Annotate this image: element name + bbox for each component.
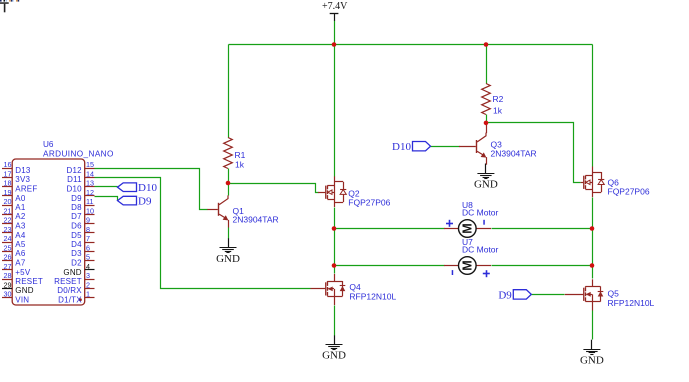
junction Q4 drain / U7 net [332, 263, 337, 268]
transistor Q4 RFP12N10L (N-MOSFET) [311, 274, 397, 305]
wire R2 to junction [486, 115, 488, 123]
svg-text:21: 21 [4, 206, 12, 215]
svg-text:29: 29 [4, 280, 12, 289]
svg-text:GND: GND [580, 355, 604, 367]
pin 26 A7 (left) [2, 253, 26, 268]
svg-text:5: 5 [86, 253, 90, 262]
pin 13 D10 (right) [67, 179, 95, 194]
svg-text:A4: A4 [15, 231, 26, 240]
ground GND under Q1 [216, 238, 240, 265]
svg-text:ARDUINO_NANO: ARDUINO_NANO [43, 149, 114, 158]
pin 18 AREF (left) [2, 179, 37, 194]
svg-text:DC Motor: DC Motor [462, 208, 499, 218]
pin 30 VIN (left) [2, 290, 29, 305]
pin 16 D13 (left) [2, 160, 31, 175]
junction rail / R2 column [484, 42, 489, 47]
pin 22 A3 (left) [2, 216, 26, 231]
net flag D9 at Arduino [118, 196, 152, 208]
clipped text artifact dots [0, 0, 19, 2]
svg-text:20: 20 [4, 197, 12, 206]
wire U8 motor - to Q6 drain net [492, 228, 593, 230]
svg-text:DC Motor: DC Motor [462, 245, 499, 255]
svg-text:D10: D10 [138, 182, 157, 194]
svg-text:GND: GND [322, 350, 346, 362]
pin 21 A2 (left) [2, 206, 26, 221]
svg-text:2N3904TAR: 2N3904TAR [491, 148, 537, 158]
svg-text:10: 10 [86, 206, 94, 215]
svg-text:FQP27P06: FQP27P06 [348, 197, 390, 207]
svg-text:A5: A5 [15, 240, 26, 249]
wire to Q4 drain [334, 266, 336, 274]
svg-text:D3: D3 [71, 249, 82, 258]
svg-text:FQP27P06: FQP27P06 [608, 187, 650, 197]
ground GND under Q3 [474, 164, 498, 191]
wire +7.4V top rail [229, 44, 593, 46]
svg-text:18: 18 [4, 179, 12, 188]
svg-text:D0/RX: D0/RX [57, 286, 82, 295]
svg-text:D4: D4 [71, 240, 82, 249]
svg-text:D10: D10 [392, 141, 411, 153]
svg-text:D1/TX: D1/TX [58, 296, 82, 305]
wire rail to Q2 source [334, 45, 336, 177]
svg-text:GND: GND [474, 179, 498, 191]
wire R2 junction to Q6 gate [487, 123, 581, 183]
wire Q1 emitter to ground [228, 228, 230, 239]
svg-text:12: 12 [86, 188, 94, 197]
pin 7 D4 (right) [71, 234, 94, 249]
wire to U7 motor - [335, 265, 445, 267]
+7.4V supply symbol [322, 1, 348, 21]
svg-text:2: 2 [86, 280, 90, 289]
junction R2 / Q3 / Q6 gate [484, 121, 489, 126]
pin 8 D5 (right) [71, 225, 94, 240]
wire R1 junction to Q2 gate [229, 184, 319, 193]
svg-text:AREF: AREF [15, 185, 37, 194]
svg-text:6: 6 [86, 243, 90, 252]
svg-text:23: 23 [4, 225, 12, 234]
pin 28 RESET (left) [2, 271, 43, 286]
transistor Q3 2N3904TAR (NPN) [459, 124, 537, 165]
resistor R1 1k [224, 138, 246, 170]
wire D10 pin to flag [95, 186, 118, 188]
svg-text:Q4: Q4 [349, 282, 361, 292]
wire top rail to R2 [486, 45, 488, 84]
IC U6 ARDUINO_NANO body [12, 140, 114, 305]
svg-text:D13: D13 [15, 166, 31, 175]
junction R1 / Q1 / Q2 gate [226, 181, 231, 186]
svg-text:RFP12N10L: RFP12N10L [349, 291, 396, 301]
pin 3 RESET (right) [54, 271, 94, 286]
svg-text:+5V: +5V [15, 268, 31, 277]
net flag D10 at Q3 [392, 141, 430, 153]
svg-text:19: 19 [4, 188, 12, 197]
transistor Q6 FQP27P06 (P-MOSFET) [581, 167, 650, 198]
motor U7 DC Motor [444, 237, 499, 277]
pin 2 D0/RX (right) [57, 280, 94, 295]
svg-text:16: 16 [4, 160, 12, 169]
svg-text:24: 24 [4, 234, 12, 243]
junction Q5 drain / U7 net [590, 263, 595, 268]
clipped text artifact T [0, 2, 9, 12]
wire R1 to Q1 collector [228, 169, 230, 196]
pin 20 A1 (left) [2, 197, 26, 212]
wire U7 motor + to right net [492, 265, 593, 267]
pin 10 D7 (right) [71, 206, 94, 221]
pin 1 D1/TX (right) [58, 290, 94, 305]
svg-text:D9: D9 [498, 289, 512, 301]
svg-text:RESET: RESET [54, 277, 82, 286]
wire Q5 source to ground [592, 311, 594, 340]
svg-text:1k: 1k [235, 160, 245, 170]
svg-text:GND: GND [216, 253, 240, 265]
ground GND under Q4 [322, 335, 346, 361]
junction rail / Q2 column [332, 42, 337, 47]
svg-text:28: 28 [4, 271, 12, 280]
pin 6 D3 (right) [71, 243, 94, 258]
svg-text:D8: D8 [71, 203, 82, 212]
svg-text:A1: A1 [15, 203, 26, 212]
wire Q6 drain down right net [592, 198, 594, 266]
transistor Q1 2N3904TAR (NPN) [207, 195, 278, 227]
ground GND under Q5 [580, 340, 604, 367]
wire motor net vertical left [334, 229, 336, 266]
pin 27 +5V (left) [2, 262, 31, 277]
svg-text:D6: D6 [71, 222, 82, 231]
pin 25 A6 (left) [2, 243, 26, 258]
pin 29 GND (left) [2, 280, 34, 295]
pin 15 D12 (right) [67, 160, 95, 175]
transistor Q5 RFP12N10L (N-MOSFET) [565, 279, 655, 310]
svg-text:14: 14 [86, 169, 94, 178]
svg-text:8: 8 [86, 225, 90, 234]
svg-text:27: 27 [4, 262, 12, 271]
net flag D10 at Arduino [118, 182, 158, 194]
motor U8 DC Motor [444, 200, 499, 237]
svg-text:M: M [461, 223, 475, 233]
svg-text:D9: D9 [71, 194, 82, 203]
svg-text:D9: D9 [138, 196, 152, 208]
svg-text:M: M [461, 260, 475, 270]
svg-text:RFP12N10L: RFP12N10L [608, 298, 655, 308]
svg-text:GND: GND [63, 268, 81, 277]
svg-text:15: 15 [86, 160, 94, 169]
svg-text:9: 9 [86, 216, 90, 225]
svg-text:A2: A2 [15, 212, 26, 221]
svg-text:13: 13 [86, 179, 94, 188]
svg-text:A6: A6 [15, 249, 26, 258]
pin 11 D8 (right) [71, 197, 94, 212]
wire D12 pin to Q1 base [95, 169, 208, 210]
pin 12 D9 (right) [71, 188, 94, 203]
svg-text:A0: A0 [15, 194, 26, 203]
wire Q2 to U8 motor + [335, 228, 445, 230]
pin 17 3V3 (left) [2, 169, 30, 184]
svg-text:R2: R2 [493, 94, 504, 104]
svg-text:+7.4V: +7.4V [322, 1, 348, 12]
svg-text:26: 26 [4, 253, 12, 262]
pin 5 D2 (right) [71, 253, 94, 268]
svg-text:2N3904TAR: 2N3904TAR [233, 214, 279, 224]
svg-text:1k: 1k [493, 106, 503, 116]
wire Q2 drain to motor net [334, 208, 336, 229]
svg-text:D2: D2 [71, 259, 82, 268]
wire Q4 source to ground [334, 306, 336, 336]
pin 24 A5 (left) [2, 234, 26, 249]
svg-text:22: 22 [4, 216, 12, 225]
net flag D9 at Q5 [498, 289, 531, 301]
wire +7.4V symbol to rail [334, 21, 336, 45]
svg-text:GND: GND [15, 286, 33, 295]
wire top rail to R1 [228, 45, 230, 138]
svg-text:D7: D7 [71, 212, 82, 221]
svg-text:D5: D5 [71, 231, 82, 240]
svg-text:30: 30 [4, 290, 12, 299]
svg-text:D12: D12 [67, 166, 83, 175]
svg-text:RESET: RESET [15, 277, 43, 286]
svg-text:VIN: VIN [15, 296, 29, 305]
junction Q2 drain / U8 net [332, 226, 337, 231]
pin 14 D11 (right) [67, 169, 94, 184]
svg-text:U6: U6 [43, 140, 54, 149]
svg-text:11: 11 [86, 197, 93, 206]
wire D9 flag to Q5 gate [532, 294, 565, 296]
svg-text:A3: A3 [15, 222, 26, 231]
pin 19 A0 (left) [2, 188, 26, 203]
pin 23 A4 (left) [2, 225, 26, 240]
svg-text:D11: D11 [67, 175, 82, 184]
svg-text:17: 17 [4, 169, 12, 178]
svg-text:D10: D10 [67, 185, 83, 194]
svg-text:3V3: 3V3 [15, 175, 30, 184]
svg-text:1: 1 [86, 290, 90, 299]
junction Q6 drain / U8 net [590, 226, 595, 231]
svg-text:Q5: Q5 [608, 289, 620, 299]
transistor Q2 FQP27P06 (P-MOSFET) [318, 176, 391, 207]
svg-text:3: 3 [86, 271, 90, 280]
wire D10 flag to Q3 base [431, 146, 460, 148]
svg-text:A7: A7 [15, 259, 26, 268]
wire to Q5 drain [592, 266, 594, 279]
svg-text:25: 25 [4, 243, 12, 252]
svg-text:7: 7 [86, 234, 90, 243]
svg-text:4: 4 [86, 262, 90, 271]
wire top rail to Q6 source [592, 45, 594, 167]
svg-text:R1: R1 [235, 150, 246, 160]
resistor R2 1k [482, 84, 504, 116]
pin 9 D6 (right) [71, 216, 94, 231]
pin 4 GND (right) [63, 262, 94, 277]
wire D11 pin to Q4 gate [95, 178, 311, 289]
wire D9 pin to flag [95, 197, 118, 201]
